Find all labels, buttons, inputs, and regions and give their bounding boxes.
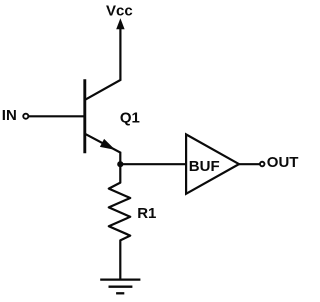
svg-text:OUT: OUT [267, 154, 299, 171]
svg-text:Vcc: Vcc [106, 2, 133, 19]
svg-text:BUF: BUF [189, 158, 220, 175]
svg-text:R1: R1 [137, 205, 156, 222]
svg-text:Q1: Q1 [120, 109, 140, 126]
svg-text:IN: IN [2, 107, 17, 124]
